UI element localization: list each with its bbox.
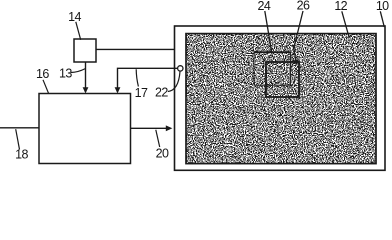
- label 18: [15, 129, 28, 161]
- label 24: [258, 0, 272, 52]
- svg-text:24: 24: [258, 0, 271, 13]
- enclosure rectangle 10: [175, 26, 386, 170]
- label 17: [135, 69, 148, 100]
- wire 20 (box 16 to enclosure, arrow): [131, 125, 173, 131]
- svg-text:17: 17: [135, 86, 148, 100]
- box 14: [74, 39, 96, 62]
- thick top edge of square 24: [254, 51, 292, 53]
- svg-text:14: 14: [68, 10, 81, 24]
- wire 17 (from sensor 22 down into box 16): [115, 68, 178, 93]
- stippled substrate region 12: [186, 34, 376, 164]
- label 10: [376, 0, 389, 27]
- wire 18 (input into box 16): [0, 127, 39, 129]
- svg-text:26: 26: [297, 0, 310, 13]
- wire from box 14 to enclosure: [96, 48, 175, 50]
- label 12: [334, 0, 349, 38]
- thin inner square 24: [254, 52, 291, 85]
- sensor circle 22: [178, 66, 183, 71]
- svg-text:13: 13: [59, 67, 72, 81]
- label 16: [36, 67, 49, 93]
- svg-text:20: 20: [156, 146, 169, 160]
- svg-text:22: 22: [155, 86, 168, 100]
- box 16: [39, 94, 131, 164]
- label 22: [155, 72, 180, 100]
- label 26: [293, 0, 310, 66]
- svg-text:18: 18: [15, 148, 28, 162]
- wire 13 (box 14 down into box 16): [83, 62, 89, 93]
- label 20: [156, 130, 169, 161]
- label 14: [68, 10, 81, 40]
- svg-text:16: 16: [36, 67, 49, 81]
- thick inner square 26: [266, 62, 299, 97]
- svg-text:10: 10: [376, 0, 389, 13]
- svg-text:12: 12: [334, 0, 347, 13]
- label 13: [59, 67, 85, 81]
